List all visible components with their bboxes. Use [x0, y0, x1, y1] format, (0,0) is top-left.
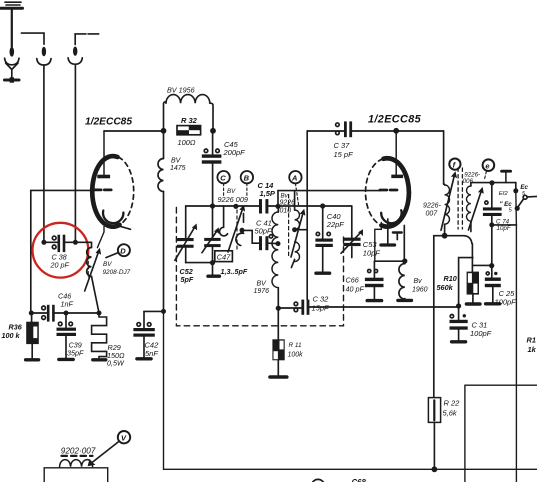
IFT core dashes: [457, 168, 459, 229]
label 9226-007: [423, 203, 442, 218]
coil BV9208 (antenna coil): [75, 242, 99, 313]
node dot: [402, 258, 407, 263]
resistor R10: [466, 272, 480, 304]
node dot: [292, 227, 297, 232]
label C40: [326, 212, 345, 229]
label R36: [2, 323, 23, 340]
svg-text:006: 006: [463, 178, 474, 185]
plug pin 3: [73, 47, 77, 56]
triode V1a envelope thick arc: [92, 156, 119, 227]
coupling coil 9226-009 winding 2: [236, 214, 244, 246]
svg-text:R 11: R 11: [289, 342, 302, 349]
wire L2 R10/C25: [473, 264, 492, 266]
node dot: [210, 128, 216, 134]
wire R22 rail: [433, 236, 435, 398]
label C24: [496, 218, 512, 232]
svg-text:10pF: 10pF: [497, 225, 512, 232]
node dot tap: [276, 241, 281, 246]
transformer coil: [60, 460, 93, 467]
oscillator coil BV1976 primary: [272, 206, 278, 308]
svg-text:BV: BV: [257, 280, 268, 287]
wire right lower rail: [465, 385, 537, 482]
node dot bottom bus: [432, 466, 438, 472]
cathode V1a: [97, 211, 130, 248]
svg-text:22pF: 22pF: [326, 220, 345, 229]
wire input 2 top: [21, 33, 44, 44]
node V: [118, 431, 130, 443]
svg-text:010: 010: [280, 208, 292, 215]
svg-text:0,5W: 0,5W: [107, 359, 125, 368]
svg-text:1475: 1475: [170, 165, 186, 172]
svg-text:1,5P: 1,5P: [260, 189, 276, 198]
svg-text:10pF: 10pF: [363, 248, 381, 257]
trimmer C53: [341, 206, 363, 258]
node dot: [210, 260, 215, 265]
label C31: [470, 321, 492, 339]
svg-text:9226 009: 9226 009: [218, 195, 248, 204]
svg-text:20 pF: 20 pF: [50, 261, 70, 270]
wire Y to ground plug: [6, 63, 18, 78]
svg-text:5nF: 5nF: [145, 349, 158, 358]
label C52: [180, 267, 194, 284]
svg-text:1976: 1976: [254, 288, 270, 295]
wire e net: [471, 182, 516, 184]
node dot C40: [320, 203, 325, 208]
trimmer C52: [175, 225, 197, 261]
capacitor C40: [315, 206, 332, 273]
transformer core dashes: [62, 455, 93, 457]
wire right rail: [515, 191, 518, 482]
label C45: [223, 140, 246, 157]
svg-text:1960: 1960: [412, 287, 428, 294]
label C42: [145, 341, 160, 358]
label Ec lower: [500, 201, 513, 213]
svg-text:C66: C66: [346, 275, 359, 284]
arrow IFT secondary: [468, 188, 483, 230]
node dot: [233, 204, 238, 209]
wire C66 node: [375, 260, 405, 262]
wire C24 to right rail: [492, 224, 517, 226]
capacitor C31: [450, 303, 468, 341]
node dot: [210, 203, 215, 208]
node e: [483, 159, 495, 179]
aerial T symbol: [502, 171, 511, 182]
svg-text:A: A: [291, 173, 297, 182]
wire antenna lead-in: [11, 10, 13, 48]
wire input2 down: [43, 65, 45, 242]
capacitor C32: [278, 300, 309, 315]
plug pin 2: [42, 47, 46, 57]
node dot e net: [489, 180, 494, 185]
node dot: [161, 309, 166, 314]
label R10: [437, 274, 457, 292]
inductor BV1956: [164, 95, 214, 131]
label C53: [363, 240, 381, 257]
wire L1 C31 riser: [459, 258, 473, 306]
wire left rail to bottom bus: [164, 311, 537, 469]
node dot: [161, 128, 167, 134]
label 9226-006: [463, 171, 481, 185]
wire IFT bottom left to R22 rail: [434, 235, 445, 237]
label C38 value: [50, 253, 70, 270]
resistor R36: [26, 313, 39, 360]
svg-text:C 37: C 37: [334, 141, 351, 150]
wire: [66, 312, 99, 314]
osc secondary 9226-010: [291, 191, 307, 268]
switch contact upper: [513, 183, 518, 194]
socket cup 3: [68, 58, 82, 64]
label R29: [107, 343, 125, 368]
svg-text:50pF: 50pF: [255, 226, 273, 235]
label BV 9226-009: [218, 188, 248, 204]
svg-text:15pF: 15pF: [312, 304, 330, 313]
label BV 9208-DJ7: [103, 261, 131, 276]
capacitor C25: [485, 272, 501, 304]
wire anode bus to IFT: [443, 131, 445, 184]
label R11: [288, 342, 304, 359]
ground plug bar: [5, 79, 20, 82]
wire: [144, 310, 164, 312]
wire input 3 top: [75, 34, 99, 45]
node A: [289, 171, 301, 205]
arrow 009: [228, 206, 245, 252]
svg-text:B: B: [244, 173, 250, 182]
capacitor C46: [31, 305, 66, 322]
node dot: [97, 311, 102, 316]
anode V1b: [391, 131, 403, 178]
socket cup 2: [37, 59, 51, 65]
box C47 label: [215, 251, 233, 262]
label BV 9226 010: [280, 192, 296, 214]
IFT secondary coil: [467, 183, 471, 232]
arrow IFT primary: [441, 172, 456, 230]
svg-text:100 k: 100 k: [2, 331, 21, 340]
label BV 1976: [254, 280, 270, 295]
dashed tuner box: [176, 208, 343, 326]
label C46: [58, 291, 73, 308]
svg-text:R10: R10: [444, 274, 457, 283]
wire long horizontal to C31: [309, 306, 458, 308]
plug pin 1: [10, 47, 15, 57]
svg-text:1/2ECC85: 1/2ECC85: [85, 117, 132, 128]
resistor R22: [428, 398, 440, 470]
IFT primary coil: [444, 184, 450, 236]
node junction C38 left: [41, 240, 46, 245]
node dot C25 top: [489, 263, 494, 268]
svg-text:R 32: R 32: [181, 116, 198, 125]
triode V1b envelope dashed arc: [366, 159, 383, 225]
label C66: [346, 275, 365, 293]
svg-text:9226-: 9226-: [423, 203, 442, 210]
resistor R32: [177, 126, 201, 135]
node dot C24 bottom: [489, 222, 494, 227]
ground tank: [208, 263, 219, 277]
inductor BV1475: [158, 131, 164, 311]
svg-text:Eℓ2: Eℓ2: [499, 191, 509, 197]
node f: [449, 159, 460, 170]
node dot: [29, 311, 34, 316]
label R22: [443, 399, 461, 418]
node circle bottom edge: [312, 479, 325, 482]
wire vertical x307: [306, 131, 308, 300]
node D: [106, 244, 130, 257]
label BV 1960: [412, 278, 428, 294]
svg-text:D: D: [120, 246, 126, 255]
svg-text:007: 007: [426, 211, 439, 218]
svg-text:C: C: [220, 173, 226, 182]
wire input3 down: [74, 64, 76, 242]
svg-text:9226: 9226: [280, 199, 296, 206]
arrow through BV9208: [85, 249, 101, 291]
svg-text:1k: 1k: [528, 345, 537, 354]
capacitor C41: [242, 230, 278, 250]
switch blade: [515, 195, 537, 211]
svg-text:BV: BV: [171, 158, 182, 165]
svg-text:R 22: R 22: [444, 399, 461, 408]
triode V1b envelope thick arc: [382, 158, 409, 226]
arrow to V: [88, 442, 119, 466]
svg-text:200pF: 200pF: [223, 148, 246, 157]
node dot osc bottom: [276, 306, 281, 311]
node dot: [64, 311, 69, 316]
label C37: [334, 141, 354, 159]
svg-text:Bv: Bv: [281, 192, 289, 199]
triode V1a envelope dashed arc: [119, 157, 134, 224]
wire grid net tube2: [278, 190, 380, 192]
tank loop bottom: [186, 262, 213, 264]
coupling coil 9226-009 winding 1: [220, 206, 228, 236]
core dashes 010: [288, 195, 290, 257]
svg-text:BV 1956: BV 1956: [167, 86, 195, 95]
node dot: [240, 228, 245, 233]
anode V1a: [97, 131, 110, 178]
node dot: [275, 204, 280, 209]
svg-text:1,3..5pF: 1,3..5pF: [221, 267, 248, 276]
capacitor C39: [57, 313, 77, 359]
svg-text:560k: 560k: [437, 283, 454, 292]
capacitor C38: [44, 235, 76, 252]
grid V1a: [94, 189, 112, 192]
svg-text:e: e: [485, 161, 489, 170]
svg-text:C47: C47: [217, 253, 232, 262]
svg-text:40 pF: 40 pF: [346, 284, 365, 293]
svg-text:5,6k: 5,6k: [443, 408, 458, 417]
core dashes 009: [236, 210, 238, 249]
inductor BV1960: [398, 261, 412, 300]
svg-text:1nF: 1nF: [61, 300, 74, 309]
wire anode bus: [104, 130, 164, 132]
capacitor C37: [307, 121, 443, 137]
svg-text:Bv: Bv: [414, 278, 423, 285]
svg-text:C 32: C 32: [313, 295, 330, 304]
capacitor C14: [259, 199, 268, 213]
node dot anode V1b: [393, 128, 399, 134]
svg-text:100k: 100k: [288, 352, 304, 359]
capacitor C24: [483, 183, 502, 278]
socket cup 1: [5, 58, 19, 65]
svg-text:9202·007: 9202·007: [61, 447, 96, 456]
svg-text:9208·DJ7: 9208·DJ7: [103, 269, 131, 276]
svg-text:100pF: 100pF: [470, 329, 492, 338]
wire osc box left edge: [277, 191, 279, 207]
transformer box: [44, 468, 107, 482]
svg-text:C68: C68: [352, 478, 367, 482]
label R12 (cut): [527, 336, 537, 355]
tank loop left branch: [185, 206, 187, 263]
tank loop right branch: [212, 206, 214, 263]
svg-text:1/2ECC85: 1/2ECC85: [368, 113, 422, 125]
label C25: [495, 289, 517, 306]
label BV 1475: [170, 158, 186, 173]
svg-text:15 pF: 15 pF: [334, 150, 354, 159]
svg-text:BV: BV: [227, 188, 236, 195]
node C: [217, 171, 229, 195]
wire hop to R10: [445, 236, 473, 272]
label C39: [67, 340, 84, 357]
svg-text:R1: R1: [527, 336, 536, 345]
svg-text:BV: BV: [103, 261, 112, 268]
label Ec upper: [520, 184, 528, 197]
svg-text:100Ω: 100Ω: [178, 138, 196, 147]
capacitor C45: [202, 131, 222, 206]
trimmer C47: [202, 228, 221, 252]
node junction C38 right: [73, 240, 78, 245]
label R32: [178, 116, 198, 147]
arrow 010: [291, 210, 305, 257]
capacitor C42: [133, 311, 154, 358]
wire RF bus: [186, 205, 352, 207]
label C41: [255, 218, 273, 235]
label C14: [258, 181, 276, 198]
antenna symbol top-left: [1, 2, 23, 8]
svg-text:35pF: 35pF: [67, 348, 84, 357]
highlight red circle: [33, 223, 89, 278]
node dot IFT bottom: [442, 233, 448, 239]
grid V1b: [380, 189, 397, 192]
node B: [241, 171, 253, 195]
label C32: [312, 295, 330, 313]
capacitor C66: [365, 261, 384, 300]
svg-text:5pF: 5pF: [181, 275, 194, 284]
resistor R29 meander: [92, 313, 107, 360]
resistor R11: [270, 308, 287, 377]
cathode V1b: [375, 210, 405, 261]
svg-text:100pF: 100pF: [495, 297, 517, 306]
wire grid net tube1: [31, 190, 94, 313]
